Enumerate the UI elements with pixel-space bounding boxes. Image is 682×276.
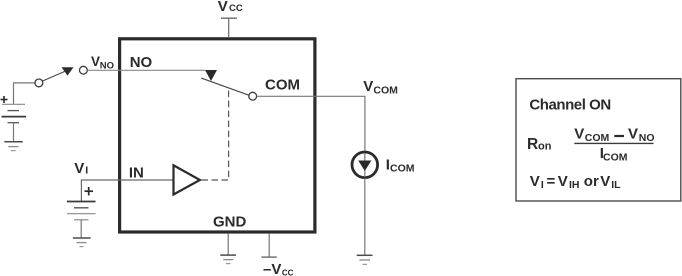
battery B1 plates: [2, 104, 27, 122]
wire VCC stub into box top: [228, 18, 230, 38]
IC switch box U1: [120, 39, 315, 232]
svg-text:Channel ON: Channel ON: [529, 96, 610, 113]
battery B2 (VI source) plus sign: [85, 187, 94, 195]
svg-text:IH: IH: [569, 179, 580, 191]
pin label IN: [129, 165, 144, 182]
node VNO terminal circle: [80, 66, 88, 74]
label VI: [74, 160, 88, 177]
svg-text:COM: COM: [390, 163, 415, 175]
svg-text:V: V: [558, 173, 568, 190]
svg-text:CC: CC: [282, 269, 294, 276]
svg-text:V: V: [363, 78, 373, 95]
wire VI to IN pin: [81, 180, 172, 201]
svg-text:COM: COM: [585, 132, 610, 144]
switch S1 throw contact circle: [35, 79, 43, 87]
svg-text:COM: COM: [265, 77, 300, 94]
formula fraction bar: [574, 136, 653, 143]
wire GND stub below box: [227, 234, 229, 255]
svg-text:or: or: [584, 173, 599, 190]
switch S2 arrow (internal switch): [205, 70, 217, 81]
pin label COM: [265, 77, 300, 94]
wire COM to VCOM node: [257, 96, 365, 151]
switch S1 arrow: [62, 67, 74, 75]
ground under battery B2: [73, 238, 91, 247]
svg-text:NO: NO: [100, 60, 114, 71]
VCC supply terminal bar: [221, 17, 237, 19]
wire battery B2 bottom to ground: [80, 220, 82, 238]
-VCC supply terminal bar: [261, 256, 276, 258]
ground under battery B1: [4, 142, 23, 151]
switch S2 COM contact circle: [249, 92, 257, 100]
svg-text:V: V: [74, 160, 84, 177]
annotation box: Channel ON: [516, 79, 681, 201]
battery B2 plates: [67, 202, 96, 220]
ground under GND pin: [220, 255, 236, 264]
label VI = VIH or VIL: [530, 173, 621, 191]
svg-text:V: V: [530, 173, 540, 190]
switch S1 blade: [43, 72, 65, 82]
label Ron: [527, 136, 552, 153]
formula denominator ICOM: [600, 145, 628, 164]
label ICOM: [386, 157, 415, 175]
svg-text:V: V: [628, 125, 638, 142]
svg-text:R: R: [527, 136, 538, 153]
label VCOM: [363, 78, 398, 97]
wire battery B1 top to switch S1: [14, 83, 35, 104]
label VNO: [91, 54, 114, 71]
pin label GND: [213, 214, 247, 231]
svg-text:GND: GND: [213, 214, 247, 231]
wire VNO terminal to NO pin: [88, 69, 206, 71]
svg-text:=: =: [547, 173, 556, 190]
ground under ICOM: [357, 255, 373, 264]
svg-text:COM: COM: [603, 151, 628, 163]
svg-text:V: V: [574, 125, 584, 142]
svg-text:IN: IN: [129, 165, 144, 182]
svg-text:NO: NO: [639, 132, 655, 144]
label -VCC: [263, 261, 294, 276]
formula numerator VCOM - VNO: [574, 125, 654, 144]
svg-text:on: on: [538, 140, 552, 152]
pin label NO: [130, 54, 153, 71]
svg-text:–V: –V: [263, 261, 281, 276]
svg-text:CC: CC: [229, 3, 243, 14]
buffer U2: [174, 165, 200, 194]
label Channel ON: [529, 96, 610, 113]
VCC supply label: [218, 0, 243, 15]
svg-text:IL: IL: [611, 179, 621, 191]
wire ICOM to ground: [364, 178, 366, 255]
svg-text:V: V: [91, 54, 100, 69]
current source ICOM circle: [352, 152, 378, 178]
battery B1 (VNO source) plus sign: [1, 96, 8, 103]
svg-text:COM: COM: [373, 85, 398, 97]
svg-text:V: V: [600, 173, 610, 190]
svg-text:I: I: [85, 165, 88, 177]
svg-text:V: V: [218, 0, 228, 15]
wire -VCC stub below box: [268, 234, 270, 257]
switch S2 blade: [201, 78, 249, 95]
svg-text:I: I: [541, 179, 544, 191]
dashed control wire buffer to switch S2: [202, 88, 229, 180]
svg-text:NO: NO: [130, 54, 153, 71]
wire battery B1 bottom to ground: [13, 123, 15, 141]
